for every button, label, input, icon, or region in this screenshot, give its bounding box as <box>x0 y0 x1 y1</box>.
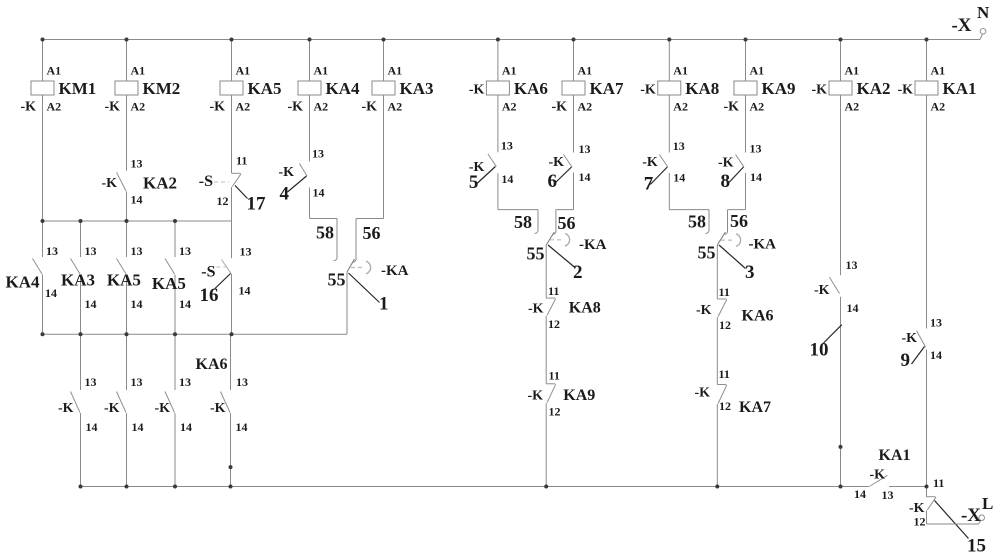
svg-text:11: 11 <box>548 284 559 298</box>
junction mid bus 1 #4 <box>173 219 177 223</box>
terminal -X N <box>980 35 982 40</box>
leader 6 <box>555 167 572 184</box>
svg-text:8: 8 <box>721 171 731 192</box>
svg-text:A1: A1 <box>845 64 860 78</box>
svg-text:-K: -K <box>58 401 74 416</box>
junction mid bus 1 #1 <box>41 219 45 223</box>
svg-text:-K: -K <box>640 83 656 98</box>
leader 7 <box>650 167 667 185</box>
junction top bus 9 <box>744 38 748 42</box>
svg-text:14: 14 <box>501 172 513 186</box>
svg-text:KM2: KM2 <box>143 79 181 98</box>
svg-text:A2: A2 <box>131 100 146 114</box>
svg-text:14: 14 <box>179 297 191 311</box>
bottom bus wire (L rail) left part <box>81 486 870 488</box>
junction top bus 6 <box>496 38 500 42</box>
wire CO3 common lower <box>716 404 718 487</box>
mid bus wire 2 <box>43 333 348 335</box>
svg-text:11: 11 <box>933 476 944 490</box>
wire CO2 common lower <box>545 403 547 486</box>
wire KA7 branch <box>573 40 575 82</box>
svg-text:13: 13 <box>579 142 591 156</box>
bottom bus wire right part <box>889 486 927 488</box>
junction top bus 2 <box>125 38 129 42</box>
svg-text:13: 13 <box>501 139 513 153</box>
svg-text:-K: -K <box>642 155 658 170</box>
svg-text:12: 12 <box>914 515 926 529</box>
svg-text:12: 12 <box>719 318 731 332</box>
svg-text:KA7: KA7 <box>739 399 771 416</box>
svg-text:-K: -K <box>104 100 120 115</box>
wire KA3 branch <box>383 40 385 82</box>
svg-text:KA7: KA7 <box>590 79 625 98</box>
junction top bus 8 <box>667 38 671 42</box>
changeover contact 2 jog wires <box>498 209 538 211</box>
svg-text:14: 14 <box>239 284 251 298</box>
wire C lower <box>126 334 128 390</box>
svg-text:-K: -K <box>528 302 544 317</box>
junction mid bus 2 #5 <box>230 332 234 336</box>
svg-text:KA9: KA9 <box>563 387 595 404</box>
svg-text:15: 15 <box>967 536 986 557</box>
wire C mid <box>126 221 128 257</box>
contact 5 13/14 <box>488 154 497 167</box>
wire KA8 branch <box>668 40 670 82</box>
svg-text:A2: A2 <box>845 100 860 114</box>
coil KM2 <box>115 81 138 95</box>
svg-text:55: 55 <box>328 270 346 290</box>
junction bottom bus #7 <box>839 485 843 489</box>
wire E mid <box>231 221 233 258</box>
svg-text:A1: A1 <box>673 64 688 78</box>
svg-text:L: L <box>982 494 993 513</box>
svg-text:16: 16 <box>200 285 219 306</box>
svg-text:-K: -K <box>287 100 303 115</box>
contact KA6 13/14 (row B col 4) <box>221 392 231 413</box>
svg-text:KA4: KA4 <box>6 273 41 292</box>
svg-text:-K: -K <box>210 401 226 416</box>
junction bottom bus #6 <box>715 485 719 489</box>
svg-text:56: 56 <box>558 213 576 233</box>
svg-text:6: 6 <box>548 171 558 192</box>
svg-text:11: 11 <box>719 285 730 299</box>
switch -S 17 NC 11/12 <box>232 172 241 174</box>
junction mid bus 2 #4 <box>173 332 177 336</box>
svg-text:-K: -K <box>469 83 485 98</box>
changeover contact 1 jog wires <box>310 218 338 220</box>
svg-text:14: 14 <box>180 420 192 434</box>
svg-text:KA1: KA1 <box>879 447 911 464</box>
svg-text:13: 13 <box>846 258 858 272</box>
svg-text:1: 1 <box>379 294 389 315</box>
junction bottom bus #1 <box>79 485 83 489</box>
changeover contact 3 jog wires <box>669 209 709 211</box>
svg-text:KA1: KA1 <box>943 79 977 98</box>
contact -K 13/14 (row B col 3) <box>165 392 175 413</box>
svg-text:A2: A2 <box>673 100 688 114</box>
svg-text:A1: A1 <box>502 64 517 78</box>
wire KA6 branch <box>497 40 499 82</box>
changeover contact 1 blade and common <box>347 259 355 272</box>
svg-text:-KA: -KA <box>749 237 777 253</box>
junction mid bus 2 #3 <box>125 332 129 336</box>
svg-text:A1: A1 <box>931 64 946 78</box>
arrow -KA 2 <box>550 239 563 241</box>
svg-text:13: 13 <box>179 244 191 258</box>
wire KA4 branch <box>309 40 311 82</box>
contact KA2 13/14 <box>117 172 127 191</box>
svg-text:13: 13 <box>312 147 324 161</box>
terminal -X L wire <box>926 511 928 525</box>
coil KA7 <box>562 81 585 95</box>
svg-text:7: 7 <box>644 174 654 195</box>
contact KA5 13/14 (row A col 4) <box>165 259 175 275</box>
svg-text:KA2: KA2 <box>857 79 891 98</box>
svg-text:56: 56 <box>730 211 748 231</box>
svg-text:55: 55 <box>527 244 545 264</box>
svg-text:KA5: KA5 <box>107 271 141 290</box>
contact KA5 13/14 (row A) <box>117 259 127 275</box>
svg-text:-K: -K <box>901 331 917 346</box>
svg-text:-K: -K <box>897 83 913 98</box>
svg-text:A2: A2 <box>750 100 765 114</box>
svg-text:4: 4 <box>280 184 290 205</box>
leader 9 <box>912 347 925 365</box>
svg-text:A2: A2 <box>388 100 403 114</box>
svg-text:-K: -K <box>101 176 117 191</box>
svg-text:-K: -K <box>278 165 294 180</box>
svg-text:14: 14 <box>847 301 859 315</box>
coil KA5 <box>220 81 243 95</box>
svg-text:14: 14 <box>86 420 98 434</box>
svg-text:13: 13 <box>179 375 191 389</box>
svg-text:58: 58 <box>514 212 532 232</box>
leader 1 <box>349 273 380 303</box>
NC contact KA8 11/12 <box>546 297 555 299</box>
svg-text:11: 11 <box>549 369 560 383</box>
coil KM1 <box>31 81 54 95</box>
svg-text:-K: -K <box>551 100 567 115</box>
svg-text:-KA: -KA <box>381 263 409 279</box>
svg-text:13: 13 <box>131 244 143 258</box>
svg-text:-S: -S <box>199 173 213 190</box>
wire KA5 branch <box>231 40 233 82</box>
svg-text:13: 13 <box>85 244 97 258</box>
leader 4 <box>288 176 307 192</box>
leader 5 <box>476 167 496 185</box>
NC contact KA6 11/12 <box>717 298 726 300</box>
coil KA3 <box>372 81 395 95</box>
svg-text:14: 14 <box>85 297 97 311</box>
svg-text:-K: -K <box>20 100 36 115</box>
svg-text:13: 13 <box>46 244 58 258</box>
svg-text:A2: A2 <box>502 100 517 114</box>
svg-text:14: 14 <box>930 348 942 362</box>
leader 16 <box>215 274 231 289</box>
svg-text:-K: -K <box>104 401 120 416</box>
junction bottom bus #2 <box>125 485 129 489</box>
node dot column E above bottom bus <box>229 465 233 469</box>
wire KA9 branch <box>745 40 747 82</box>
svg-text:KA3: KA3 <box>61 271 95 290</box>
svg-text:A1: A1 <box>314 64 329 78</box>
svg-text:14: 14 <box>131 193 143 207</box>
svg-text:12: 12 <box>217 194 229 208</box>
mid bus wire 1 <box>41 220 232 222</box>
wire KM2 branch <box>126 40 128 82</box>
contact 4 13/14 <box>300 164 308 177</box>
svg-text:KA6: KA6 <box>514 79 548 98</box>
svg-text:13: 13 <box>930 316 942 330</box>
wire KA1 column below bus <box>926 487 928 497</box>
svg-text:12: 12 <box>719 399 731 413</box>
svg-text:9: 9 <box>901 350 911 371</box>
svg-text:14: 14 <box>236 420 248 434</box>
junction top bus 10 <box>839 38 843 42</box>
coil KA6 <box>486 81 509 95</box>
NC contact KA7 11/12 <box>717 384 726 386</box>
svg-text:A1: A1 <box>131 64 146 78</box>
svg-text:KA3: KA3 <box>400 79 434 98</box>
svg-text:-K: -K <box>718 156 734 171</box>
leader 15 <box>935 501 969 539</box>
wire B lower <box>80 334 82 390</box>
svg-text:-K: -K <box>723 100 739 115</box>
contact KA1 13/14 (horizontal on bottom bus) <box>870 475 888 486</box>
svg-text:3: 3 <box>745 262 755 283</box>
svg-text:-K: -K <box>361 100 377 115</box>
junction bottom bus #5 <box>544 485 548 489</box>
svg-text:A2: A2 <box>47 100 62 114</box>
svg-text:KA5: KA5 <box>248 79 282 98</box>
junction bottom bus #8 <box>925 485 929 489</box>
contact 9 13/14 <box>917 331 926 348</box>
wire KM1 branch <box>42 40 44 82</box>
top bus wire (N rail) <box>41 39 981 41</box>
switch -S 16 NO 13/14 <box>222 260 232 274</box>
svg-text:10: 10 <box>810 340 829 361</box>
contact 6 13/14 <box>564 155 573 168</box>
node dot column KA2 above bottom bus <box>839 445 843 449</box>
svg-text:13: 13 <box>750 142 762 156</box>
arrow -KA 3 <box>721 239 734 241</box>
junction mid bus 1 #3 <box>125 219 129 223</box>
junction bottom bus #3 <box>173 485 177 489</box>
coil KA2 <box>829 81 852 95</box>
svg-text:12: 12 <box>549 405 561 419</box>
svg-text:A2: A2 <box>931 100 946 114</box>
svg-text:14: 14 <box>750 170 762 184</box>
changeover contact 2 blade and common <box>546 232 554 245</box>
NC contact KA9 11/12 <box>546 383 555 385</box>
coil KA9 <box>734 81 757 95</box>
contact KA4 13/14 <box>33 259 43 275</box>
svg-text:A1: A1 <box>236 64 251 78</box>
svg-text:13: 13 <box>85 375 97 389</box>
contact -K 13/14 (row B col 1) <box>71 392 81 413</box>
svg-text:KA8: KA8 <box>569 300 601 317</box>
svg-text:11: 11 <box>719 367 730 381</box>
svg-text:-K: -K <box>548 155 564 170</box>
svg-text:13: 13 <box>240 245 252 259</box>
svg-text:KA5: KA5 <box>152 274 186 293</box>
svg-text:KA8: KA8 <box>685 79 719 98</box>
svg-text:13: 13 <box>882 488 894 502</box>
junction top bus 7 <box>572 38 576 42</box>
svg-text:KA4: KA4 <box>326 79 361 98</box>
svg-text:-K: -K <box>694 386 710 401</box>
wire E lower (row B col 4) <box>230 334 232 390</box>
svg-text:56: 56 <box>363 223 381 243</box>
leader 2 <box>548 245 576 268</box>
svg-text:A2: A2 <box>578 100 593 114</box>
coil KA4 <box>298 81 321 95</box>
wire CO3 common mid <box>716 317 718 385</box>
wire KA2 branch <box>840 40 842 82</box>
junction mid bus 2 #1 <box>41 332 45 336</box>
svg-text:13: 13 <box>131 156 143 170</box>
svg-text:12: 12 <box>548 317 560 331</box>
leader 10 <box>824 325 842 343</box>
leader 3 <box>719 245 746 269</box>
junction top bus 1 <box>41 38 45 42</box>
svg-text:KA2: KA2 <box>143 174 177 193</box>
svg-text:KA6: KA6 <box>196 356 228 373</box>
svg-text:-K: -K <box>870 468 886 483</box>
junction mid bus 2 #2 <box>79 332 83 336</box>
svg-text:11: 11 <box>236 154 247 168</box>
svg-text:13: 13 <box>131 375 143 389</box>
svg-text:-KA: -KA <box>579 237 607 253</box>
svg-text:-X: -X <box>961 505 981 526</box>
svg-text:14: 14 <box>579 170 591 184</box>
svg-text:-K: -K <box>527 389 543 404</box>
svg-text:58: 58 <box>688 212 706 232</box>
svg-text:-K: -K <box>209 100 225 115</box>
svg-text:14: 14 <box>45 286 57 300</box>
svg-text:14: 14 <box>131 297 143 311</box>
wire CO2 common mid <box>545 316 547 384</box>
svg-text:KA9: KA9 <box>762 79 796 98</box>
svg-text:14: 14 <box>313 186 325 200</box>
contact -K 13/14 (row B col 2) <box>117 392 127 413</box>
coil KA1 <box>915 81 938 95</box>
wire D upper <box>174 221 176 257</box>
arrow -KA 1 <box>351 267 364 269</box>
svg-text:13: 13 <box>673 139 685 153</box>
junction bottom bus #4 <box>229 485 233 489</box>
contact KA3 13/14 <box>71 259 81 275</box>
svg-text:A1: A1 <box>47 64 62 78</box>
junction mid bus 1 #2 <box>79 219 83 223</box>
svg-text:-S: -S <box>201 264 215 281</box>
contact 8 13/14 <box>736 155 745 168</box>
svg-text:A1: A1 <box>388 64 403 78</box>
junction top bus 11 <box>925 38 929 42</box>
svg-text:13: 13 <box>236 375 248 389</box>
svg-text:-K: -K <box>696 303 712 318</box>
svg-text:14: 14 <box>673 171 685 185</box>
wire A lower <box>42 221 44 257</box>
leader 8 <box>729 167 744 183</box>
leader 17 <box>235 186 248 199</box>
svg-text:A2: A2 <box>236 100 251 114</box>
svg-text:N: N <box>977 3 990 22</box>
svg-text:5: 5 <box>469 172 479 193</box>
svg-text:14: 14 <box>854 487 866 501</box>
svg-text:17: 17 <box>247 194 267 215</box>
svg-text:58: 58 <box>316 223 334 243</box>
wire KA1 branch <box>926 40 928 82</box>
coil KA8 <box>658 81 681 95</box>
svg-text:14: 14 <box>132 420 144 434</box>
svg-text:-K: -K <box>811 83 827 98</box>
svg-text:A1: A1 <box>750 64 765 78</box>
svg-text:-K: -K <box>814 283 830 298</box>
svg-text:KM1: KM1 <box>59 79 97 98</box>
svg-text:A2: A2 <box>314 100 329 114</box>
junction top bus 3 <box>230 38 234 42</box>
wire B upper <box>80 221 82 257</box>
contact 7 13/14 <box>659 155 668 168</box>
junction top bus 4 <box>308 38 312 42</box>
changeover contact 3 blade and common <box>717 232 725 245</box>
svg-text:KA6: KA6 <box>742 308 774 325</box>
contact 10 13/14 <box>830 277 840 293</box>
svg-text:A1: A1 <box>578 64 593 78</box>
junction top bus 5 <box>382 38 386 42</box>
svg-text:55: 55 <box>698 243 716 263</box>
NC contact 15 11/12 <box>927 496 936 498</box>
svg-text:2: 2 <box>573 262 583 283</box>
svg-text:-X: -X <box>951 15 971 36</box>
wire D lower <box>174 334 176 390</box>
svg-text:-K: -K <box>154 401 170 416</box>
